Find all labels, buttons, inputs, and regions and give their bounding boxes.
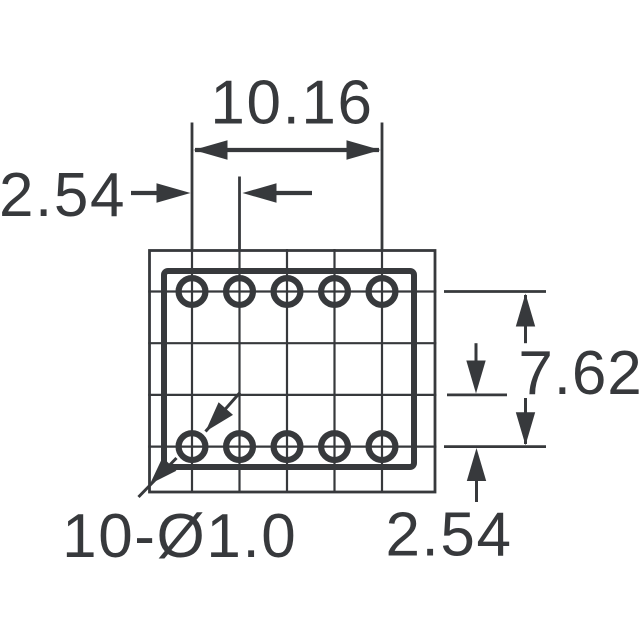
svg-text:10.16: 10.16 (210, 69, 373, 138)
arrowhead 10.16 left (194, 140, 228, 159)
arrowhead 2.54 top-left pointing right (157, 183, 191, 202)
hole H6 bottom row (179, 433, 206, 460)
grid vertical line col4 (333, 249, 335, 493)
grid vertical line col5 (381, 249, 383, 493)
svg-text:7.62: 7.62 (518, 339, 640, 408)
extension line col1 top (191, 123, 194, 250)
extension line row1 right (444, 290, 546, 293)
grid horizontal line row2 (148, 342, 436, 344)
inner pad pattern thick rectangle (164, 271, 414, 467)
leader arrowhead lower pointing at pad corner (150, 457, 176, 484)
outer component outline rectangle (150, 251, 436, 493)
label text 10-diameter 1.0 (62, 502, 297, 571)
extension line col2 top (238, 177, 241, 250)
svg-text:2.54: 2.54 (385, 501, 512, 570)
dimension tail 2.54 top right (272, 191, 312, 195)
hole H9 bottom row (321, 433, 348, 460)
arrowhead 2.54 right up (467, 448, 486, 481)
hole H3 top row (274, 278, 301, 305)
dimension tail 2.54 top-left (131, 191, 165, 195)
dimension text 2.54 top-left (0, 161, 126, 230)
svg-text:2.54: 2.54 (0, 161, 126, 230)
hole H2 top row (226, 278, 253, 305)
dimension text 7.62 (518, 339, 640, 408)
arrowhead 10.16 right (347, 140, 381, 159)
hole H5 top row (369, 278, 396, 305)
svg-text:10-Ø1.0: 10-Ø1.0 (62, 502, 297, 571)
hole H4 top row (321, 278, 348, 305)
grid vertical line col3 (286, 249, 288, 493)
extension line row4 right (444, 445, 546, 448)
dimension stem 7.62 upper (524, 295, 527, 343)
grid horizontal line row3 (148, 394, 436, 396)
dimension stem 2.54 right upper (475, 343, 478, 363)
hole H8 bottom row (274, 433, 301, 460)
grid horizontal line row1 (148, 290, 436, 292)
grid vertical line col1 (191, 249, 193, 493)
arrowhead 2.54 top pointing left (243, 183, 277, 202)
dimension line 10.16 (195, 148, 379, 152)
hole H7 bottom row (226, 433, 253, 460)
arrowhead 7.62 down (516, 412, 535, 445)
leader arrowhead upper pointing at hole H6 (206, 402, 234, 431)
dimension text 2.54 bottom-right (385, 501, 512, 570)
dimension stem 7.62 lower (524, 398, 527, 444)
dimension stem 2.54 right lower (475, 479, 478, 502)
leader line upper segment (206, 393, 241, 432)
grid horizontal line row4 (148, 446, 436, 448)
extension line row3 right (447, 393, 507, 396)
hole H10 bottom row (369, 433, 396, 460)
hole H1 top row (179, 278, 206, 305)
dimension text 10.16 (210, 69, 373, 138)
arrowhead 2.54 right down (466, 361, 485, 394)
grid vertical line col2 (238, 249, 240, 493)
leader line lower segment (139, 458, 177, 497)
extension line col5 top (381, 123, 384, 250)
arrowhead 7.62 up (516, 294, 535, 327)
